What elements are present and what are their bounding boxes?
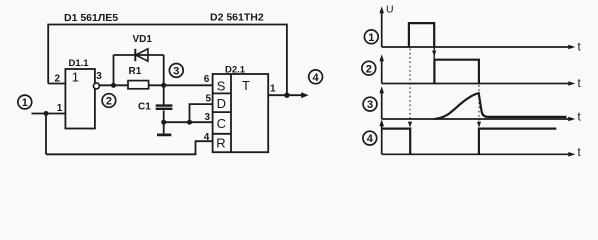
- svg-text:D2 561ТН2: D2 561ТН2: [210, 12, 264, 24]
- label R1: [129, 66, 142, 77]
- node 1 circle timing: [364, 30, 378, 44]
- label D2 561ТН2: [210, 12, 264, 24]
- flip-flop U2 D2.1 body: [213, 74, 269, 152]
- svg-text:5: 5: [206, 94, 212, 105]
- svg-text:3: 3: [367, 99, 373, 111]
- timing axis t row 1: [382, 45, 576, 50]
- svg-text:3: 3: [173, 66, 179, 78]
- guideline dashed edge 1: [408, 49, 412, 128]
- label t row 3: [578, 112, 582, 124]
- junction D-C tie: [187, 120, 192, 125]
- wire diode branch left vertical: [113, 55, 115, 85]
- svg-text:R: R: [216, 136, 225, 151]
- wire capacitor to junction: [163, 110, 165, 133]
- flip-flop C label: [217, 116, 226, 131]
- trace row 1 pulse: [409, 23, 434, 47]
- node 3 circle: [169, 64, 183, 78]
- timing axis t row 4: [382, 152, 576, 157]
- label D1 561ЛЕ5: [64, 12, 118, 24]
- svg-text:VD1: VD1: [133, 34, 153, 45]
- op-amp gate D1.1 body: [65, 69, 95, 129]
- trace row 2 pulse: [434, 60, 479, 84]
- guideline solid edge row1 to row2: [432, 48, 436, 60]
- wire bottom rail to R pin: [46, 141, 213, 154]
- label C1: [138, 102, 151, 113]
- timing axis vertical row 4: [379, 119, 384, 154]
- ground bar: [157, 134, 171, 137]
- timing axis t row 2: [382, 81, 576, 86]
- wire node 3 down to capacitor: [163, 85, 165, 104]
- node 4 circle: [309, 70, 323, 84]
- pin 2 label: [55, 73, 61, 84]
- flip-flop R label: [216, 136, 225, 151]
- svg-text:t: t: [578, 78, 582, 90]
- label VD1: [133, 34, 153, 45]
- label t row 2: [578, 78, 582, 90]
- pin 3 label flip-flop: [205, 112, 211, 123]
- node 3 circle timing: [363, 97, 377, 111]
- svg-text:S: S: [217, 78, 226, 93]
- svg-text:3: 3: [205, 112, 211, 123]
- diode VD1: [135, 49, 148, 61]
- svg-text:4: 4: [367, 133, 374, 145]
- svg-text:t: t: [578, 112, 582, 124]
- pin 1 output label: [270, 84, 276, 95]
- timing axis U vertical row 1: [379, 6, 384, 47]
- junction output node: [284, 93, 289, 98]
- wire capacitor node to C input: [164, 121, 213, 123]
- gate output inversion bubble: [93, 83, 99, 89]
- svg-text:2: 2: [55, 73, 61, 84]
- junction capacitor bottom: [161, 120, 166, 125]
- svg-text:D: D: [217, 96, 226, 111]
- timing axis vertical row 2: [379, 54, 384, 83]
- node 2 circle: [102, 94, 116, 108]
- output arrow head: [301, 92, 308, 98]
- svg-text:1: 1: [22, 97, 28, 109]
- trace row 4 high low high: [382, 129, 557, 155]
- svg-text:1: 1: [368, 32, 374, 44]
- label t row 1: [578, 42, 582, 54]
- pin 1 label: [57, 103, 63, 114]
- wire gate pin2 stub: [48, 83, 65, 85]
- svg-text:6: 6: [204, 74, 210, 85]
- wire feedback top rail: [48, 25, 287, 96]
- trace row 3 capacitor curve: [435, 93, 567, 119]
- svg-text:1: 1: [270, 84, 276, 95]
- wire input down to bottom rail: [45, 114, 47, 155]
- node 2 circle timing: [362, 61, 376, 75]
- pin 4 label: [204, 132, 210, 143]
- wire tie up to D input: [190, 104, 213, 122]
- svg-text:U: U: [386, 4, 394, 16]
- svg-text:C: C: [217, 116, 226, 131]
- wire diode branch top: [114, 54, 164, 56]
- pin 3 label: [96, 71, 102, 82]
- flip-flop S label: [217, 78, 226, 93]
- label D1.1: [69, 58, 90, 69]
- pin 6 label: [204, 74, 210, 85]
- wire gate output to node: [99, 84, 128, 86]
- timing axis vertical row 3: [379, 86, 384, 119]
- svg-text:1: 1: [72, 70, 79, 85]
- capacitor C1: [156, 106, 173, 109]
- svg-text:3: 3: [96, 71, 102, 82]
- pin 5 label: [206, 94, 212, 105]
- guideline dashed edge 2: [477, 85, 481, 128]
- svg-text:C1: C1: [138, 102, 151, 113]
- wire input: [32, 113, 66, 115]
- label U: [386, 4, 394, 16]
- svg-text:D1.1: D1.1: [69, 58, 90, 69]
- node 4 circle timing: [363, 131, 377, 145]
- flip-flop D label: [217, 96, 226, 111]
- wire flip-flop output: [268, 94, 302, 96]
- wire resistor to node 3: [149, 84, 213, 86]
- svg-text:D2.1: D2.1: [225, 64, 246, 75]
- label D2.1: [225, 64, 246, 75]
- flip-flop T label: [242, 78, 250, 93]
- svg-text:1: 1: [57, 103, 63, 114]
- svg-text:t: t: [578, 147, 582, 159]
- resistor R1: [128, 81, 149, 89]
- junction node 3: [161, 83, 166, 88]
- wire diode branch right vertical: [163, 55, 165, 85]
- svg-text:R1: R1: [129, 66, 142, 77]
- node 1 input circle: [18, 95, 32, 109]
- svg-text:4: 4: [313, 72, 320, 84]
- timing axis t row 3: [382, 117, 576, 122]
- svg-text:2: 2: [106, 96, 112, 108]
- junction input node: [44, 111, 49, 116]
- junction diode branch left: [111, 83, 116, 88]
- svg-text:t: t: [578, 42, 582, 54]
- svg-text:T: T: [242, 78, 250, 93]
- svg-text:D1 561ЛЕ5: D1 561ЛЕ5: [64, 12, 118, 24]
- label t row 4: [578, 147, 582, 159]
- svg-text:4: 4: [204, 132, 210, 143]
- svg-text:2: 2: [366, 63, 372, 75]
